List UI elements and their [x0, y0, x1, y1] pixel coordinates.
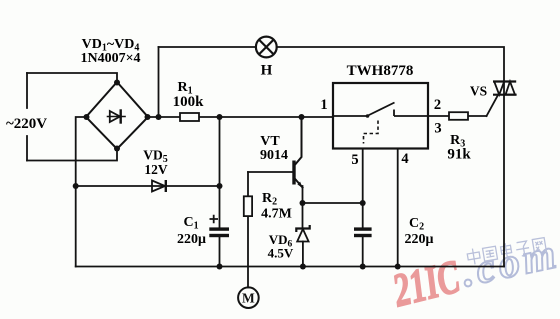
wire: VT collector riser	[296, 117, 302, 164]
node VD5 left	[73, 183, 79, 189]
node emitter junction	[300, 200, 306, 206]
node pin5 junction	[360, 200, 366, 206]
node VD5 right	[217, 183, 223, 189]
node bridge left	[84, 114, 90, 120]
svg-text:1: 1	[320, 97, 327, 113]
node VT collector	[299, 114, 305, 120]
capacitor C1	[209, 227, 229, 237]
transistor VT emitter arrow	[297, 182, 302, 189]
lamp H	[256, 37, 277, 58]
svg-text:4.7M: 4.7M	[261, 207, 292, 222]
IC internal switch	[333, 103, 428, 144]
svg-text:220μ: 220μ	[177, 232, 206, 247]
wire: VT base line	[248, 171, 293, 173]
svg-text:5: 5	[351, 152, 358, 168]
wire: IC pin4 vertical	[397, 149, 399, 267]
node bridge bottom	[114, 146, 120, 152]
svg-text:3: 3	[434, 121, 441, 137]
wire: pin2 to R3	[428, 115, 487, 117]
node C1 bottom	[217, 264, 223, 270]
svg-text:220μ: 220μ	[405, 232, 434, 247]
resistor R3	[449, 112, 468, 120]
wire: VD5 line	[76, 185, 220, 187]
wire: AC bottom to bridge bottom vertex	[27, 149, 117, 161]
svg-text:VS: VS	[470, 84, 487, 99]
svg-text:~220V: ~220V	[6, 116, 47, 132]
resistor R2	[244, 196, 252, 216]
svg-text:9014: 9014	[260, 148, 288, 163]
网	[532, 238, 546, 255]
svg-text:TWH8778: TWH8778	[347, 63, 414, 79]
svg-text:4.5V: 4.5V	[268, 246, 294, 261]
wire: VD6 branch	[302, 203, 304, 267]
motor M	[238, 287, 259, 308]
node C2 bottom	[360, 264, 366, 270]
wire: AC top to bridge top vertex	[27, 73, 117, 82]
svg-text:2: 2	[434, 97, 441, 113]
wire: main positive rail	[148, 116, 333, 118]
中	[467, 248, 481, 266]
svg-text:VT: VT	[260, 134, 280, 149]
wire: C1 branch vertical	[219, 117, 221, 267]
国	[483, 246, 498, 261]
wire: VT emitter	[296, 180, 303, 188]
svg-text:1N4007×4: 1N4007×4	[80, 51, 140, 66]
diode VD5	[152, 180, 166, 192]
bridge rectifier diamond VD1-VD4	[86, 82, 148, 149]
wire: R2 motor branch	[247, 172, 249, 287]
zener diode VD6	[296, 225, 309, 242]
svg-text:12V: 12V	[144, 162, 168, 177]
wire: bottom rail	[76, 266, 504, 268]
node pin4 bottom	[395, 264, 401, 270]
node bridge right	[145, 114, 151, 120]
子	[515, 241, 530, 257]
watermark chinese 中国电子网	[467, 237, 547, 266]
IC U1 TWH8778 box	[333, 83, 428, 149]
label ~220V	[6, 109, 47, 135]
wire: top rail left of lamp	[159, 46, 256, 48]
capacitor C2	[354, 227, 372, 237]
svg-text:91k: 91k	[447, 147, 471, 163]
svg-text:M: M	[242, 291, 255, 306]
transistor VT	[292, 161, 295, 185]
bridge inner diode symbol	[108, 116, 126, 118]
wire: emitter to pin5 horizontal	[303, 202, 363, 204]
watermark 21IC.com	[387, 231, 560, 318]
svg-text:100k: 100k	[173, 94, 205, 110]
svg-text:4: 4	[401, 151, 408, 167]
wire: top rail right of lamp	[277, 47, 504, 267]
wire: AC source left bracket vertical	[26, 73, 28, 161]
node lamp branch	[156, 114, 162, 120]
capacitor C1 plus	[210, 215, 219, 223]
wire: top lamp branch riser	[158, 47, 160, 117]
resistor R1	[180, 113, 199, 121]
node C1 top	[217, 114, 223, 120]
node VD6 bottom	[300, 264, 306, 270]
wire: R3 to triac gate diagonal	[487, 95, 499, 116]
triac VS	[493, 82, 517, 95]
wire: IC pin5 vertical	[362, 149, 364, 267]
node bridge top	[114, 80, 120, 86]
wire: bridge left vertex down left rail	[76, 117, 86, 267]
电	[500, 242, 513, 258]
svg-text:H: H	[261, 63, 273, 79]
